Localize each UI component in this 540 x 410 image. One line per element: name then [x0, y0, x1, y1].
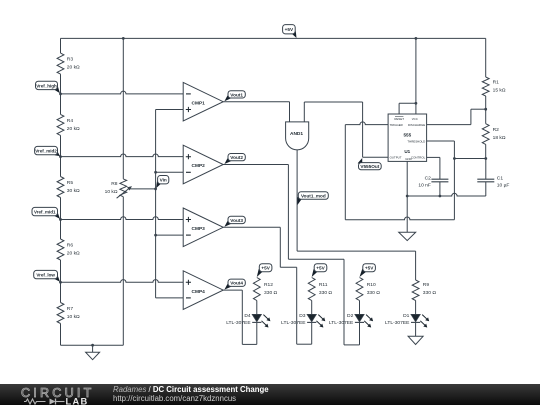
svg-text:R6: R6	[67, 243, 74, 249]
svg-text:D2: D2	[347, 313, 354, 319]
wire AND1 input left from Vout1	[289, 121, 291, 123]
svg-text:330 Ω: 330 Ω	[367, 290, 381, 296]
wire D2 cathode loop	[359, 323, 361, 345]
wire R12 to LED	[256, 301, 258, 315]
svg-text:C1: C1	[497, 176, 504, 182]
wire AND1 right input	[303, 102, 305, 122]
node label Vout2	[224, 158, 231, 165]
wire R8 wiper to Vin	[130, 188, 155, 190]
svg-text:RESET: RESET	[394, 117, 404, 121]
resistor R1	[482, 77, 489, 96]
svg-text:V555Out: V555Out	[360, 164, 379, 169]
svg-text:D1: D1	[403, 313, 410, 319]
potentiometer R8	[120, 179, 127, 197]
svg-text:CMP2: CMP2	[192, 163, 206, 169]
wire Vout1	[223, 101, 289, 103]
wire R10 to LED	[359, 301, 361, 315]
node label Vref_mid1	[54, 213, 60, 219]
power label +5V for R12	[257, 269, 263, 277]
resistor R10	[356, 278, 363, 301]
svg-text:30 kΩ: 30 kΩ	[67, 188, 80, 194]
wire Vout2	[223, 164, 288, 166]
resistor R2	[482, 124, 489, 145]
op-amp CMP4	[183, 271, 223, 310]
svg-text:D4: D4	[244, 313, 251, 319]
node label Vout1	[224, 95, 231, 102]
junctions ladder nodes	[59, 92, 62, 95]
svg-text:Vref_low: Vref_low	[36, 273, 55, 278]
wire node Vref_high	[61, 91, 184, 94]
svg-text:CMP1: CMP1	[192, 100, 206, 106]
wire AND1 output Vout1_mod	[296, 150, 298, 251]
svg-text:555: 555	[403, 133, 411, 138]
wire Vout4	[223, 289, 242, 291]
wire Vin to CMP1 plus	[156, 109, 184, 111]
svg-text:330 Ω: 330 Ω	[423, 290, 437, 296]
op-amp CMP1	[183, 82, 223, 121]
svg-text:R1: R1	[493, 80, 500, 86]
wire R1 top	[485, 38, 487, 77]
svg-text:Vout3: Vout3	[230, 218, 243, 223]
svg-text:LTL-307EE: LTL-307EE	[226, 320, 251, 326]
svg-text:R5: R5	[67, 180, 74, 186]
wire R11 to LED	[311, 301, 313, 315]
svg-text:+5V: +5V	[365, 266, 374, 271]
resistor R11	[308, 278, 315, 301]
node label Vout1_mod	[298, 197, 303, 205]
svg-text:LTL-307EE: LTL-307EE	[385, 320, 410, 326]
svg-text:C2: C2	[425, 176, 432, 182]
power label +5V for R10	[360, 269, 367, 277]
svg-text:20 kΩ: 20 kΩ	[67, 65, 80, 71]
svg-text:R12: R12	[264, 282, 273, 288]
wire THRESHOLD to R2/C1	[454, 158, 485, 160]
R8 wiper arrow	[117, 188, 130, 198]
svg-text:20 kΩ: 20 kΩ	[67, 250, 80, 256]
svg-text:+5V: +5V	[285, 27, 294, 32]
junction GND net	[406, 195, 409, 198]
node label Vout3	[224, 220, 231, 227]
power label +5V for R11	[312, 269, 318, 277]
wire bottom ladder rail	[61, 344, 124, 346]
svg-text:Vref_high: Vref_high	[36, 83, 57, 88]
wire D3 cathode loop	[311, 323, 313, 344]
wire D1 to ground	[415, 323, 417, 336]
resistor R12	[253, 278, 260, 301]
svg-text:VCC: VCC	[412, 117, 418, 121]
svg-text:TRIGGER: TRIGGER	[390, 123, 403, 127]
svg-text:18 kΩ: 18 kΩ	[493, 135, 506, 141]
CircuitLab logo	[10, 384, 110, 406]
junction THRESHOLD	[453, 157, 456, 160]
svg-text:AND1: AND1	[290, 131, 303, 137]
svg-text:R2: R2	[493, 127, 500, 133]
wire D4 cathode loop	[256, 323, 258, 345]
junction ladder ground	[91, 344, 94, 347]
svg-text:330 Ω: 330 Ω	[319, 290, 333, 296]
wire node Vref_mid2	[61, 154, 184, 157]
wire node Vref_low	[61, 280, 184, 283]
wire R2 bottom	[485, 144, 487, 158]
svg-text:R11: R11	[319, 282, 328, 288]
svg-text:+5V: +5V	[261, 266, 270, 271]
wire gnd rail C2 C1	[407, 193, 486, 196]
svg-text:10 nF: 10 nF	[418, 183, 431, 189]
junction Vin nodes	[154, 171, 157, 174]
wire node Vref_mid1	[61, 217, 184, 220]
svg-text:+5V: +5V	[316, 266, 325, 271]
svg-text:R8: R8	[111, 181, 118, 187]
wire R1 bottom	[485, 96, 487, 109]
svg-text:THRESHOLD: THRESHOLD	[407, 139, 425, 143]
svg-text:10 kΩ: 10 kΩ	[105, 189, 118, 195]
svg-text:CMP4: CMP4	[192, 289, 206, 295]
LED D3	[307, 314, 316, 321]
svg-text:Vout2: Vout2	[230, 155, 243, 160]
resistor R9	[412, 280, 419, 301]
wire Vin to CMP2 minus	[156, 171, 184, 173]
wire R2 top	[485, 109, 487, 124]
ic U1 555 box	[388, 114, 427, 161]
resistor R4	[57, 114, 64, 135]
junction VCC	[415, 102, 418, 105]
junction R8 top rail	[122, 37, 125, 40]
svg-text:10 kΩ: 10 kΩ	[67, 314, 80, 320]
svg-text:R10: R10	[367, 282, 376, 288]
svg-text:10 µF: 10 µF	[497, 183, 510, 189]
op-amp CMP3	[183, 208, 223, 247]
wire DISCHARGE	[427, 124, 471, 126]
capacitor C1	[485, 159, 487, 180]
junction R1 R2	[484, 108, 487, 111]
resistor R7	[57, 303, 64, 324]
svg-text:LAB: LAB	[66, 396, 89, 406]
svg-text:Vout1: Vout1	[230, 92, 243, 97]
svg-text:15 kΩ: 15 kΩ	[493, 87, 506, 93]
svg-text:Vin: Vin	[160, 178, 167, 183]
resistor R5	[57, 177, 64, 198]
svg-text:Vout1_mod: Vout1_mod	[301, 193, 326, 198]
svg-text:R4: R4	[67, 118, 74, 124]
node label Vref_mid2	[55, 151, 60, 156]
wire GND pin	[406, 161, 408, 232]
ground U1	[399, 232, 416, 240]
wire Vin to CMP4 minus	[156, 297, 184, 299]
wire Vin vertical	[155, 110, 157, 298]
power label +5V top	[292, 31, 297, 38]
svg-text:R9: R9	[423, 282, 430, 288]
svg-text:U1: U1	[404, 149, 410, 154]
resistor R3	[57, 53, 64, 74]
node label Vout4	[224, 283, 231, 290]
wire R8 bottom	[122, 197, 124, 346]
node label Vref_high	[54, 87, 60, 94]
ground ladder	[92, 345, 94, 352]
svg-text:LTL-307EE: LTL-307EE	[329, 320, 354, 326]
ground D1	[408, 336, 423, 344]
svg-text:LTL-307EE: LTL-307EE	[281, 320, 306, 326]
svg-text:20 kΩ: 20 kΩ	[67, 126, 80, 132]
svg-text:Vref_mid2: Vref_mid2	[35, 149, 57, 154]
svg-text:R7: R7	[67, 306, 74, 312]
wire +5V top rail	[61, 37, 486, 39]
node label Vref_low	[54, 276, 60, 282]
svg-text:Vout4: Vout4	[230, 281, 243, 286]
op-amp CMP2	[183, 145, 223, 184]
wire CONTROL to C2	[427, 156, 440, 158]
capacitor C2	[431, 178, 448, 180]
resistor R6	[57, 239, 64, 260]
svg-text:DISCHARGE: DISCHARGE	[408, 123, 425, 127]
LED D4	[252, 314, 261, 321]
wire R9 to LED D1	[415, 301, 417, 315]
LED D2	[355, 314, 364, 321]
wire Vout3	[223, 226, 280, 228]
svg-text:330 Ω: 330 Ω	[264, 290, 278, 296]
svg-text:Vref_mid1: Vref_mid1	[34, 210, 56, 215]
svg-text:CONTROL: CONTROL	[411, 156, 426, 160]
svg-text:D3: D3	[299, 313, 306, 319]
and-gate AND1	[286, 122, 309, 150]
wire R8 top	[122, 38, 124, 179]
node label Vin	[156, 181, 161, 188]
svg-text:R3: R3	[67, 57, 74, 63]
node label V555Out	[358, 158, 363, 165]
wire left ladder rail segments at x=60.5	[60, 38, 62, 53]
wire RESET VCC to +5V	[398, 103, 400, 114]
LED D1	[411, 314, 420, 321]
wire Vin to CMP3 minus	[156, 234, 184, 236]
svg-text:GND: GND	[405, 157, 411, 161]
svg-text:CMP3: CMP3	[192, 226, 206, 232]
wire TRIGGER loop	[345, 122, 388, 125]
svg-text:OUTPUT: OUTPUT	[390, 156, 402, 160]
